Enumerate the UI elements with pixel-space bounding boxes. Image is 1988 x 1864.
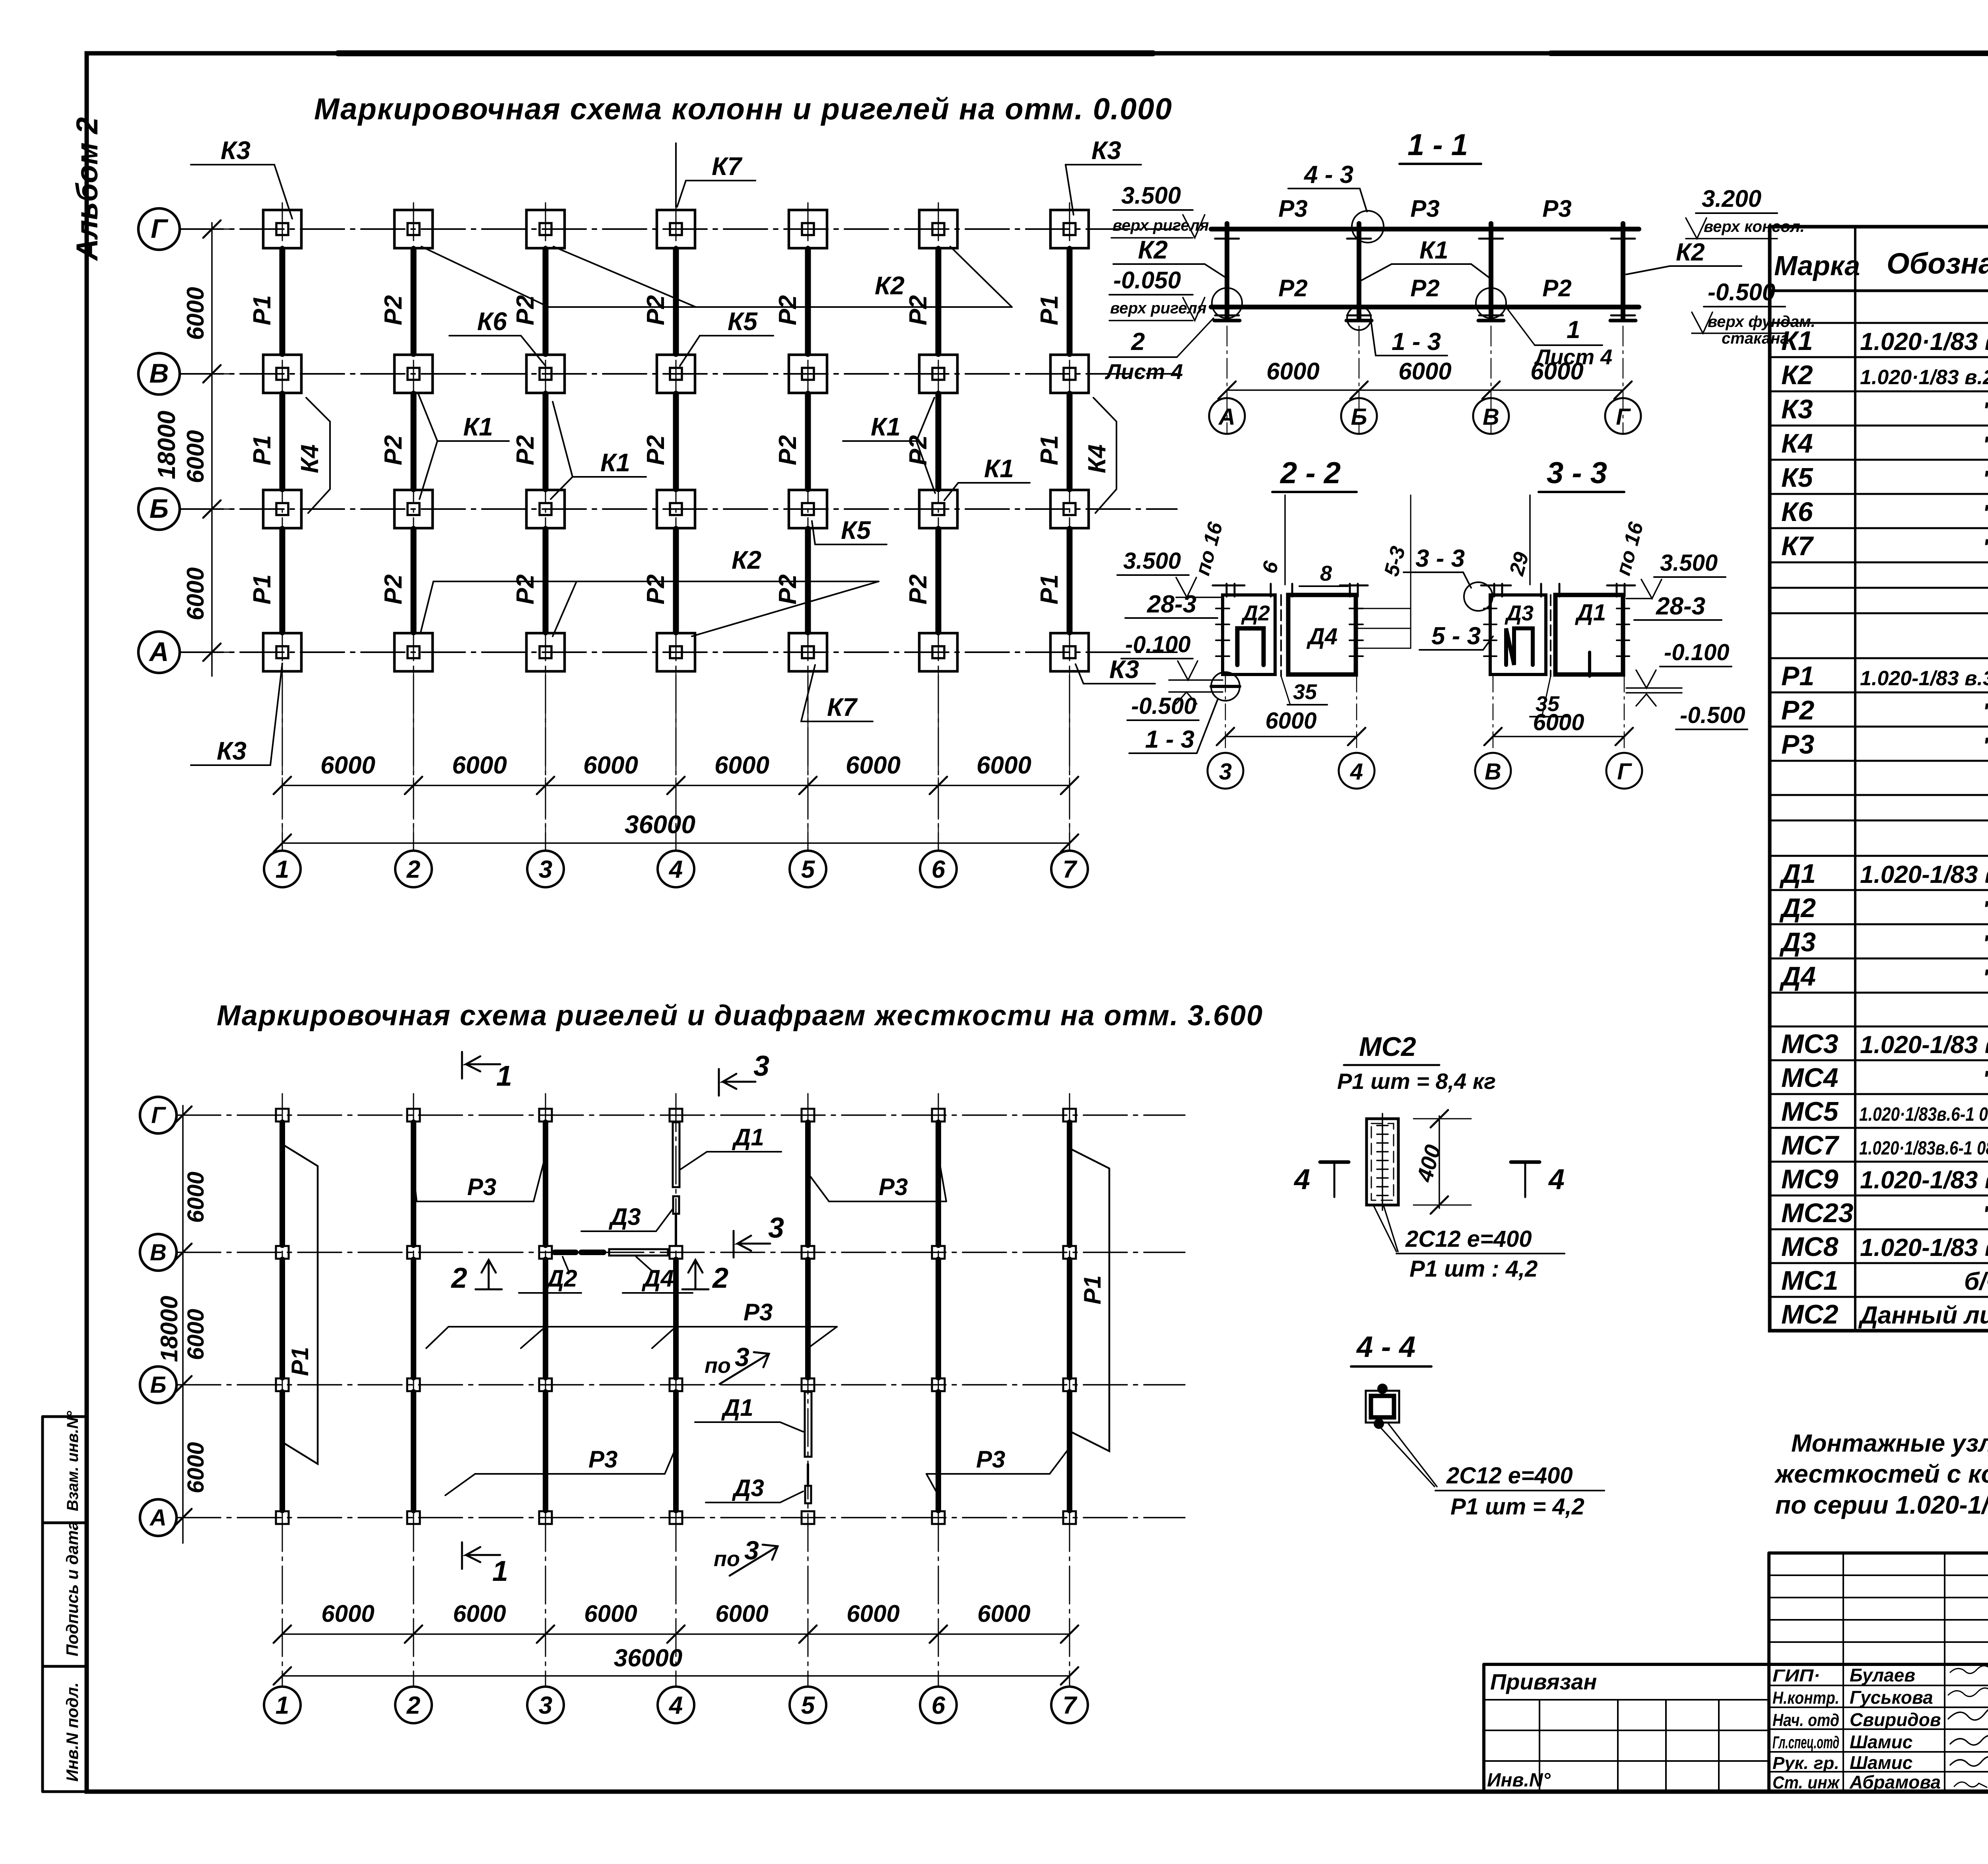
svg-text:Д2: Д2: [1241, 601, 1270, 625]
svg-text:Д4: Д4: [641, 1265, 674, 1292]
svg-text:МС7: МС7: [1781, 1130, 1840, 1160]
svg-text:К6: К6: [1781, 497, 1813, 527]
svg-text:Маркировочная схема ригелей: Маркировочная схема ригелей и диафрагм ж…: [217, 1000, 1263, 1032]
section mark 3 (middle): [733, 1231, 735, 1258]
top plan bottom dimension lines: [282, 785, 1070, 786]
svg-text:К6: К6: [477, 307, 507, 336]
svg-text:ГИП·: ГИП·: [1773, 1666, 1820, 1685]
svg-text:6000: 6000: [977, 752, 1031, 779]
svg-text:Д4: Д4: [1306, 624, 1338, 649]
svg-text:-0.500: -0.500: [1708, 279, 1775, 305]
svg-text:Обозначение: Обозначение: [1887, 247, 1988, 280]
svg-text:Р2: Р2: [774, 435, 802, 465]
svg-text:5 - 3: 5 - 3: [1431, 622, 1481, 650]
svg-text:6000: 6000: [320, 752, 375, 779]
svg-text:К1: К1: [871, 412, 901, 441]
svg-text:6000: 6000: [182, 287, 209, 340]
svg-text:3: 3: [753, 1050, 769, 1082]
svg-text:Нач. отд: Нач. отд: [1773, 1710, 1839, 1730]
svg-text:6000: 6000: [182, 430, 209, 483]
svg-text:В: В: [1483, 404, 1499, 430]
section mark 2 (right, up arrow): [682, 1289, 709, 1291]
svg-text:Р2: Р2: [905, 435, 932, 465]
specification table frame: [1770, 227, 1988, 1331]
svg-text:Р3: Р3: [1410, 195, 1439, 222]
svg-text:К1: К1: [984, 454, 1014, 483]
svg-text:Б: Б: [150, 1372, 166, 1398]
top plan column number circles: [264, 851, 301, 887]
svg-text:К1: К1: [600, 448, 630, 477]
svg-text:6000: 6000: [846, 752, 901, 779]
svg-text:Д1: Д1: [1779, 859, 1816, 889]
svg-text:1.020-1/83 в.71 30-01: 1.020-1/83 в.71 30-01: [1860, 1166, 1988, 1194]
svg-text:Р3: Р3: [1542, 195, 1571, 222]
svg-text:6000: 6000: [714, 752, 769, 779]
bottom plan vertical column axes: [282, 1094, 283, 1686]
svg-text:6000: 6000: [321, 1600, 374, 1627]
svg-text:А: А: [148, 637, 169, 667]
svg-text:": ": [1982, 931, 1988, 956]
svg-text:Р1: Р1: [287, 1347, 313, 1376]
svg-text:Р1: Р1: [248, 435, 276, 465]
svg-text:Р2: Р2: [380, 295, 407, 325]
4-4 leader 2С12: [1379, 1426, 1435, 1487]
svg-text:К2: К2: [1138, 235, 1168, 264]
diaphragm Д3 bar column 5: [805, 1486, 811, 1503]
svg-text:1: 1: [496, 1060, 512, 1092]
svg-text:МС4: МС4: [1781, 1063, 1839, 1093]
section mark 1 (top): [461, 1052, 463, 1079]
svg-text:Маркировочная схема колонн: Маркировочная схема колонн и ригелей на …: [314, 92, 1173, 126]
svg-text:К4: К4: [1083, 444, 1111, 473]
svg-text:МС8: МС8: [1781, 1232, 1839, 1262]
svg-text:Р2: Р2: [642, 435, 670, 465]
svg-text:": ": [1982, 1201, 1988, 1227]
node circle bottom-left 2-2: [1211, 672, 1240, 701]
svg-text:Гл.спец.отд: Гл.спец.отд: [1773, 1733, 1839, 1752]
svg-text:Д3: Д3: [732, 1475, 764, 1501]
svg-text:Д1: Д1: [732, 1124, 764, 1151]
svg-text:2: 2: [450, 1262, 467, 1294]
svg-text:Р3: Р3: [1278, 195, 1307, 222]
svg-text:-0.100: -0.100: [1125, 632, 1190, 657]
svg-text:Р1: Р1: [1781, 661, 1814, 691]
top plan left dimension line: [211, 223, 213, 676]
svg-text:по серии 1.020-1/83 в 6-1.: по серии 1.020-1/83 в 6-1.: [1775, 1491, 1988, 1519]
svg-text:МС1: МС1: [1781, 1265, 1839, 1296]
svg-text:К2: К2: [1676, 239, 1705, 266]
top plan column footing squares: [263, 210, 301, 248]
svg-text:28-3: 28-3: [1147, 591, 1196, 618]
svg-text:Взам. инв.N°: Взам. инв.N°: [64, 1411, 82, 1511]
svg-text:3 - 3: 3 - 3: [1547, 456, 1607, 490]
svg-text:Данный лист: Данный лист: [1858, 1302, 1988, 1329]
svg-text:2: 2: [712, 1262, 728, 1294]
svg-text:Р2: Р2: [1781, 695, 1814, 725]
svg-text:верх ригеля: верх ригеля: [1112, 217, 1209, 234]
svg-text:8: 8: [1320, 562, 1332, 585]
svg-text:по: по: [705, 1354, 731, 1378]
section mark 3 (top): [718, 1069, 720, 1096]
svg-text:Гуськова: Гуськова: [1850, 1687, 1933, 1708]
svg-text:": ": [1982, 500, 1988, 526]
svg-text:Н.контр.: Н.контр.: [1773, 1688, 1839, 1708]
svg-text:Д2: Д2: [1779, 893, 1816, 923]
svg-text:1 - 3: 1 - 3: [1392, 328, 1441, 356]
svg-text:7: 7: [1063, 1692, 1077, 1719]
svg-text:36000: 36000: [614, 1644, 682, 1672]
svg-text:6: 6: [932, 856, 945, 883]
svg-text:Р2: Р2: [380, 435, 407, 465]
svg-text:3: 3: [1219, 759, 1232, 785]
svg-text:1: 1: [1567, 316, 1580, 344]
svg-text:6000: 6000: [977, 1600, 1030, 1627]
svg-text:МС2: МС2: [1359, 1032, 1416, 1062]
diaphragm Д4 box: [1288, 595, 1356, 674]
svg-text:1.020-1/83 в.3-1,3-2,3-3: 1.020-1/83 в.3-1,3-2,3-3: [1860, 667, 1988, 690]
svg-text:Р1 шт : 4,2: Р1 шт : 4,2: [1409, 1256, 1538, 1282]
svg-text:К2: К2: [875, 271, 905, 300]
svg-text:Булаев: Булаев: [1850, 1665, 1915, 1685]
bottom plan beams: [280, 1122, 285, 1245]
svg-text:Абрамова: Абрамова: [1849, 1772, 1941, 1792]
svg-text:5: 5: [801, 1692, 815, 1719]
top plan beams (ригели): [280, 249, 285, 354]
svg-text:6000: 6000: [182, 568, 209, 620]
svg-text:6000: 6000: [583, 752, 638, 779]
signatures (scribbles): [1950, 1664, 1988, 1674]
svg-text:6000: 6000: [183, 1442, 209, 1493]
svg-text:К4: К4: [296, 444, 324, 473]
svg-text:": ": [1982, 466, 1988, 492]
svg-text:по: по: [714, 1547, 740, 1571]
dim 6000 (3-3): [1493, 736, 1624, 737]
node circles section 1-1: [1212, 288, 1242, 318]
svg-text:Шамис: Шамис: [1850, 1752, 1912, 1773]
МС2 plate: [1367, 1119, 1398, 1205]
svg-text:Г: Г: [1616, 404, 1631, 430]
МС2 dim 400: [1439, 1116, 1440, 1208]
svg-text:К4: К4: [1781, 428, 1813, 459]
diaphragm Д1 box: [1555, 595, 1623, 674]
svg-text:К3: К3: [1091, 136, 1121, 165]
svg-text:6000: 6000: [715, 1600, 768, 1627]
svg-text:Р2: Р2: [774, 295, 802, 325]
svg-text:МС3: МС3: [1781, 1029, 1839, 1059]
svg-text:Р2: Р2: [512, 574, 539, 604]
svg-text:Д1: Д1: [1574, 600, 1606, 626]
svg-text:Монтажные узлы сопряжения р: Монтажные узлы сопряжения ригелей с коло…: [1791, 1430, 1988, 1457]
svg-text:В: В: [1485, 759, 1501, 785]
svg-text:К2: К2: [1781, 360, 1813, 390]
svg-text:Б: Б: [1351, 404, 1367, 430]
svg-text:Р3: Р3: [976, 1446, 1005, 1473]
svg-text:Лист 4: Лист 4: [1105, 360, 1183, 384]
diaphragm Д3 box: [1490, 595, 1546, 674]
svg-text:3: 3: [539, 856, 552, 883]
top plan vertical column axes: [282, 203, 283, 851]
title block: middle signature column: [1769, 1553, 1988, 1792]
svg-text:МС2: МС2: [1781, 1299, 1839, 1329]
svg-text:2: 2: [406, 1692, 420, 1719]
svg-text:35: 35: [1293, 680, 1317, 704]
svg-text:6000: 6000: [1533, 709, 1584, 735]
diaphragm Д3 bar column 4: [673, 1196, 679, 1214]
svg-text:Г: Г: [151, 214, 169, 244]
svg-text:К1: К1: [1419, 237, 1448, 264]
svg-text:28-3: 28-3: [1656, 593, 1705, 620]
svg-text:Д3: Д3: [608, 1203, 641, 1230]
section 1-1 dimensions: [1227, 389, 1623, 391]
svg-text:1.020-1/83 в.7-1: 1.020-1/83 в.7-1: [1860, 1234, 1988, 1261]
svg-text:1.020·1/83 в.2-1; 2-2: 1.020·1/83 в.2-1; 2-2: [1860, 328, 1988, 356]
svg-text:К2: К2: [732, 546, 761, 574]
svg-text:": ": [1982, 1066, 1988, 1092]
svg-text:Р1: Р1: [248, 295, 276, 325]
svg-text:Свиридов: Свиридов: [1850, 1709, 1941, 1730]
svg-text:6000: 6000: [584, 1600, 637, 1627]
svg-text:Д4: Д4: [1779, 961, 1816, 991]
svg-text:Д3: Д3: [1779, 927, 1816, 957]
svg-text:1.020-1/83 в.7-1: 1.020-1/83 в.7-1: [1860, 1031, 1988, 1059]
svg-text:Р2: Р2: [512, 435, 539, 465]
axis circles 2-2: [1225, 676, 1226, 752]
svg-text:3.200: 3.200: [1702, 185, 1761, 212]
svg-text:стакана: стакана: [1722, 330, 1789, 347]
svg-text:6000: 6000: [1266, 358, 1319, 385]
svg-text:3: 3: [744, 1536, 759, 1565]
section 1-1 columns: [1225, 224, 1229, 318]
svg-text:6000: 6000: [1398, 358, 1451, 385]
diaphragm Д1 bar column 4: [673, 1122, 679, 1187]
section 1-1 lower beam Р2: [1211, 305, 1639, 309]
4-4 square: [1366, 1391, 1399, 1423]
svg-text:Р1: Р1: [1079, 1275, 1106, 1304]
svg-text:Р3: Р3: [744, 1299, 773, 1326]
svg-text:МС23: МС23: [1781, 1198, 1854, 1228]
svg-text:": ": [1982, 896, 1988, 922]
svg-text:Р2: Р2: [774, 574, 802, 604]
svg-text:3.500: 3.500: [1121, 182, 1181, 209]
svg-text:К7: К7: [827, 693, 858, 721]
svg-text:В: В: [149, 358, 169, 389]
svg-text:Р2: Р2: [642, 574, 670, 604]
svg-text:6000: 6000: [1530, 358, 1583, 385]
svg-text:Р3: Р3: [879, 1174, 908, 1200]
svg-text:": ": [1982, 432, 1988, 458]
top plan axis circles: [138, 208, 180, 250]
joint lines between Д3 and Д1: [1550, 595, 1551, 676]
svg-text:А: А: [1218, 404, 1235, 430]
svg-text:В: В: [150, 1240, 167, 1265]
svg-text:3 - 3: 3 - 3: [1415, 545, 1465, 572]
svg-text:3: 3: [539, 1692, 552, 1719]
svg-text:": ": [1982, 398, 1988, 424]
svg-text:-0.050: -0.050: [1113, 267, 1181, 293]
margin stamp boxes: [43, 1417, 87, 1792]
svg-text:жесткостей с колоннами, не: жесткостей с колоннами, не имеющие сноск…: [1774, 1460, 1988, 1488]
svg-text:Р3: Р3: [467, 1174, 496, 1200]
svg-text:4: 4: [668, 1692, 683, 1719]
svg-text:Г: Г: [151, 1102, 166, 1128]
svg-text:6: 6: [932, 1692, 945, 1719]
svg-text:Р2: Р2: [1278, 275, 1307, 301]
svg-text:К3: К3: [217, 737, 247, 765]
svg-text:Альбом 2: Альбом 2: [70, 117, 104, 261]
svg-text:2 - 2: 2 - 2: [1279, 456, 1341, 490]
axis circles 3-3: [1493, 676, 1494, 752]
top plan horizontal axes: [180, 228, 1177, 230]
svg-text:7: 7: [1063, 856, 1077, 883]
svg-text:Р1 шт = 4,2: Р1 шт = 4,2: [1450, 1494, 1584, 1520]
svg-text:Д3: Д3: [1505, 601, 1534, 625]
svg-text:1: 1: [276, 856, 289, 883]
svg-text:2С12 е=400: 2С12 е=400: [1405, 1226, 1532, 1252]
svg-text:Р1: Р1: [1036, 295, 1063, 325]
svg-text:-0.500: -0.500: [1131, 693, 1196, 719]
svg-text:Подпись и дата: Подпись и дата: [63, 1521, 82, 1656]
svg-text:А: А: [149, 1505, 167, 1531]
Д3 channel profile: [1506, 628, 1533, 665]
svg-text:-0.100: -0.100: [1664, 639, 1729, 665]
edge weld ticks 3-3: [1493, 584, 1495, 597]
diaphragm Д2 box: [1223, 595, 1275, 674]
svg-text:2: 2: [1131, 328, 1145, 356]
svg-text:1 - 3: 1 - 3: [1145, 726, 1194, 753]
svg-text:К1: К1: [1781, 326, 1813, 356]
bottom plan axis circles: [140, 1097, 177, 1133]
svg-text:4: 4: [1548, 1164, 1565, 1195]
thin reference lines right of 2-2: [1357, 608, 1411, 609]
svg-text:6000: 6000: [183, 1309, 209, 1360]
svg-text:Инв.N подл.: Инв.N подл.: [63, 1682, 82, 1782]
svg-text:1 - 1: 1 - 1: [1408, 128, 1468, 162]
section 1-1 top beam Р3: [1211, 227, 1639, 231]
svg-text:Ст. инж: Ст. инж: [1773, 1773, 1840, 1792]
svg-text:Б: Б: [149, 494, 169, 524]
svg-text:К5: К5: [728, 307, 758, 336]
diaphragm Д1 bar column 5: [805, 1392, 812, 1457]
svg-text:2: 2: [406, 856, 420, 883]
Д2 channel profile: [1237, 628, 1264, 665]
svg-text:К5: К5: [841, 516, 871, 544]
edge weld ticks 2-2: [1226, 584, 1228, 597]
МС2 leader 2С12: [1374, 1206, 1396, 1252]
svg-text:36000: 36000: [625, 810, 695, 839]
svg-text:Р1: Р1: [1036, 435, 1063, 465]
svg-text:Шамис: Шамис: [1850, 1732, 1912, 1752]
svg-text:4 - 4: 4 - 4: [1356, 1330, 1415, 1363]
svg-text:Р3: Р3: [1781, 729, 1814, 760]
svg-text:1: 1: [492, 1555, 508, 1587]
Р1 parallelogram column 7: [1068, 1148, 1109, 1451]
svg-text:6000: 6000: [1265, 708, 1316, 734]
svg-text:Р1 шт = 8,4 кг: Р1 шт = 8,4 кг: [1337, 1069, 1496, 1094]
svg-text:1.020-1/83 в.4-1,4-2: 1.020-1/83 в.4-1,4-2: [1860, 861, 1988, 888]
svg-text:Р2: Р2: [380, 574, 407, 604]
svg-text:4: 4: [1293, 1164, 1310, 1195]
svg-text:": ": [1982, 733, 1988, 759]
svg-text:6000: 6000: [453, 1600, 506, 1627]
bottom plan bottom dimension lines: [282, 1633, 1070, 1635]
svg-text:Р2: Р2: [642, 295, 670, 325]
svg-text:Р2: Р2: [905, 295, 932, 325]
dim 6000 (2-2): [1225, 736, 1357, 737]
svg-text:1: 1: [276, 1692, 289, 1719]
bottom plan column number circles: [264, 1687, 301, 1723]
svg-text:3.500: 3.500: [1660, 550, 1718, 576]
svg-text:Р2: Р2: [905, 574, 932, 604]
svg-text:18000: 18000: [153, 411, 181, 479]
svg-text:-0.500: -0.500: [1680, 702, 1745, 728]
svg-text:К7: К7: [1781, 531, 1814, 561]
title block: left section: [1484, 1664, 1769, 1792]
svg-text:1.020·1/83в.6-1 084;120.12.060: 1.020·1/83в.6-1 084;120.12.060.020: [1859, 1138, 1988, 1159]
section 1-1 axis circles: [1209, 398, 1245, 434]
svg-text:К1: К1: [463, 412, 493, 441]
svg-text:Марка: Марка: [1774, 250, 1860, 281]
svg-text:1.020·1/83в.6-1 084; 70.12.060: 1.020·1/83в.6-1 084; 70.12.060.200: [1859, 1104, 1988, 1125]
diaphragm bars on axis В (Д2, Д4): [555, 1250, 576, 1255]
svg-text:К3: К3: [221, 136, 250, 165]
svg-text:6000: 6000: [183, 1172, 209, 1223]
svg-text:Р1: Р1: [248, 574, 276, 604]
svg-text:Р1: Р1: [1036, 574, 1063, 604]
Р1 parallelogram column 1: [283, 1145, 318, 1464]
svg-text:Р3: Р3: [588, 1446, 617, 1473]
svg-text:": ": [1982, 965, 1988, 991]
svg-text:Инв.N°: Инв.N°: [1487, 1770, 1551, 1791]
bottom plan horizontal axes: [177, 1114, 1185, 1116]
svg-text:б/ч: б/ч: [1964, 1268, 1988, 1295]
svg-text:Р2: Р2: [1410, 275, 1439, 301]
joint lines between Д2 and Д4: [1280, 595, 1282, 676]
svg-text:Рук. гр.: Рук. гр.: [1773, 1753, 1839, 1773]
svg-text:Д1: Д1: [721, 1394, 753, 1421]
svg-text:2С12 е=400: 2С12 е=400: [1446, 1463, 1573, 1489]
svg-text:3: 3: [768, 1212, 784, 1244]
svg-text:": ": [1982, 535, 1988, 560]
svg-text:4 - 3: 4 - 3: [1303, 161, 1353, 189]
svg-text:МС5: МС5: [1781, 1096, 1839, 1127]
svg-text:Р2: Р2: [1542, 275, 1571, 301]
svg-text:К7: К7: [712, 152, 743, 181]
section mark 1 (bottom): [461, 1542, 463, 1569]
svg-text:6000: 6000: [846, 1600, 899, 1627]
svg-text:Г: Г: [1617, 759, 1632, 785]
svg-text:К3: К3: [1781, 394, 1813, 424]
svg-text:": ": [1982, 699, 1988, 725]
bottom plan left dimension line: [182, 1106, 184, 1543]
svg-text:18000: 18000: [156, 1296, 182, 1362]
svg-text:6000: 6000: [452, 752, 507, 779]
svg-text:МС9: МС9: [1781, 1164, 1839, 1194]
svg-text:4: 4: [668, 856, 683, 883]
svg-text:К5: К5: [1781, 463, 1813, 493]
svg-text:3.500: 3.500: [1123, 548, 1181, 574]
svg-text:Д2: Д2: [545, 1265, 577, 1292]
svg-text:4: 4: [1350, 759, 1363, 785]
svg-text:5: 5: [801, 856, 815, 883]
bottom plan joint squares: [276, 1109, 289, 1122]
svg-text:Привязан: Привязан: [1490, 1669, 1597, 1694]
svg-text:1.020·1/83 в.2-1;2-2 и КЖИ: 1.020·1/83 в.2-1;2-2 и КЖИ: [1860, 366, 1988, 389]
